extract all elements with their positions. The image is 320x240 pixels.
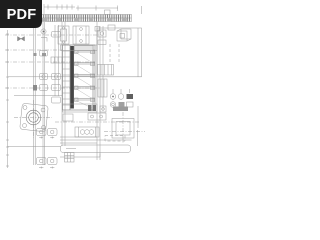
long vertical rails right	[97, 22, 103, 160]
top dimension lines	[44, 4, 142, 15]
bottom long bar	[61, 145, 131, 153]
long horizontal line under right panel	[8, 76, 142, 78]
flange bolt holes	[23, 106, 46, 130]
central assembly outer	[63, 45, 96, 110]
dashed drop lines	[110, 44, 119, 64]
hatch symbol bottom	[65, 153, 75, 163]
rack teeth	[42, 15, 130, 22]
right dim vertical	[137, 106, 139, 128]
rack bar shaded segments	[42, 18, 127, 22]
wide bottom rect band lines	[60, 130, 138, 146]
small pair components row 1	[37, 129, 58, 136]
gearbox block	[98, 65, 114, 76]
mounting plate B	[73, 26, 89, 44]
lower bracket piece	[88, 113, 106, 120]
fastener row 2	[110, 102, 133, 108]
small parts under band right	[98, 25, 115, 45]
mounting plate A	[58, 26, 69, 44]
toothed rack band	[40, 15, 132, 22]
right box with inner rect	[112, 119, 134, 139]
flange circles	[26, 110, 41, 125]
long vertical rails left	[34, 22, 59, 165]
iso cube top right	[117, 29, 131, 41]
rung end blocks	[75, 46, 95, 102]
cross line under comps	[14, 95, 62, 97]
flange plate	[20, 103, 49, 132]
svg-text:PDF: PDF	[7, 7, 37, 23]
long vertical rails center	[62, 22, 65, 146]
coupling with circles	[75, 127, 99, 137]
small block right of plates	[95, 27, 100, 32]
bottom lines	[8, 147, 101, 158]
small bolt components on left rails	[33, 29, 62, 91]
fastener row 1	[110, 89, 133, 99]
bowtie symbol	[18, 37, 25, 42]
left vertical part under panel	[98, 79, 107, 97]
ticks under pair comps	[39, 137, 54, 139]
right big panel	[97, 28, 142, 77]
left dimension line vertical	[6, 30, 9, 168]
small parts row above coupling	[63, 106, 128, 121]
small pair components row 2	[37, 158, 58, 169]
pdf badge	[0, 0, 42, 28]
central thick black bar	[70, 46, 74, 109]
central bottom foot	[63, 104, 98, 112]
central cell diagonals	[75, 52, 92, 108]
horizontal centerlines	[5, 35, 145, 144]
central cell dividers	[74, 51, 95, 101]
central left column divisions	[63, 51, 71, 105]
assembly top cap	[61, 45, 98, 51]
